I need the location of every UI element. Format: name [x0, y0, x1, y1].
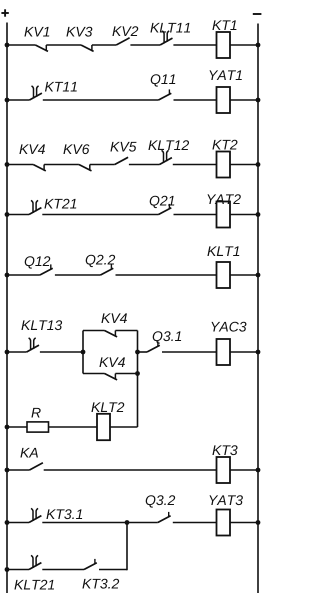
wire	[49, 426, 98, 428]
coil YAT2	[217, 202, 231, 228]
label Q21	[150, 196, 160, 208]
label KV2	[112, 26, 121, 36]
label YAT3	[209, 495, 218, 505]
label Q12	[25, 256, 35, 268]
coil KT3	[217, 457, 231, 483]
coil YAT1	[217, 87, 231, 113]
coil KLT2 (inline)	[97, 414, 110, 440]
wire	[90, 164, 115, 166]
node junction rung9 / OR-branch	[125, 520, 130, 525]
label KLT13	[21, 320, 30, 330]
wire rung3 from + bus	[5, 162, 10, 167]
label KLT11	[150, 23, 159, 33]
label Q11	[151, 74, 161, 86]
contact Q11	[159, 93, 172, 100]
wire to - bus	[230, 522, 258, 524]
contact KA	[30, 463, 43, 470]
wire to - bus	[230, 99, 258, 101]
wire	[173, 522, 217, 524]
label KV3	[66, 27, 75, 37]
wire	[174, 214, 217, 216]
wire left supply bus (+)	[6, 23, 8, 593]
label KLT2	[91, 402, 100, 412]
node junction block right / rung6	[135, 350, 140, 355]
wire	[129, 164, 160, 166]
contact KV4 (bottom of parallel block)	[105, 374, 118, 380]
wire rung5 from + bus	[5, 273, 10, 278]
label KT1	[212, 20, 221, 30]
wire	[115, 373, 137, 375]
wire	[92, 44, 116, 46]
label KT11	[45, 82, 54, 92]
wire block left vertical	[82, 331, 84, 374]
contact Q3.2	[158, 516, 171, 523]
coil KLT1	[217, 262, 231, 288]
wire	[99, 569, 127, 571]
label YAT1	[209, 70, 218, 80]
wire	[173, 44, 216, 46]
wire rung4 from + bus	[5, 212, 10, 217]
wire	[46, 44, 81, 46]
label KLT12	[148, 140, 157, 150]
wire	[44, 164, 79, 166]
contact KT3.2	[84, 563, 97, 570]
wire block bottom branch	[83, 373, 105, 375]
node minus terminal -	[253, 13, 262, 15]
contact Q21	[159, 208, 172, 215]
label Q2.2	[86, 255, 96, 267]
wire to parallel block	[40, 351, 83, 353]
wire	[130, 44, 160, 46]
contact KV3	[81, 45, 94, 51]
wire	[116, 274, 217, 276]
label KV6	[63, 144, 72, 154]
contact KV1	[35, 45, 48, 51]
label KV1	[24, 27, 33, 37]
wire	[115, 330, 137, 332]
wire to - bus	[230, 469, 258, 471]
wire block top branch	[83, 330, 105, 332]
wire	[42, 522, 158, 524]
label KV4	[19, 144, 28, 154]
contact Q12	[40, 268, 53, 275]
label KLT21	[14, 580, 23, 590]
coil YAC3	[217, 339, 231, 365]
contact Q2.2	[101, 268, 114, 275]
contact KV4	[33, 165, 46, 171]
wire	[44, 469, 217, 471]
contact KLT11 (time-delay)	[160, 38, 172, 45]
contact KT11 (time-delay)	[30, 93, 42, 100]
label KLT1	[207, 246, 216, 256]
wire rung9 from + bus	[5, 520, 10, 525]
wire to block right vertical	[110, 426, 138, 428]
contact KLT12 (time-delay)	[160, 158, 172, 165]
wire to - bus	[230, 274, 258, 276]
wire	[173, 164, 217, 166]
label KV4 top	[101, 313, 110, 323]
contact KLT21 (time-delay)	[29, 563, 41, 570]
coil KT2	[217, 152, 231, 178]
label R	[31, 408, 40, 418]
label KT3.2	[82, 579, 91, 589]
wire rung1 from + bus	[5, 43, 10, 48]
label KT3	[212, 445, 221, 455]
contact KLT13 (time-delay)	[27, 345, 39, 352]
contact KV4 (top of parallel block)	[105, 331, 118, 337]
wire OR-branch vertical up to rung9	[126, 522, 128, 571]
label KT2	[212, 140, 221, 150]
label KT3.1	[46, 509, 55, 519]
label KA	[20, 448, 29, 458]
contact KV5	[115, 157, 128, 164]
wire rung2 from + bus	[5, 98, 10, 103]
label KT21	[44, 199, 53, 209]
label KV4 bottom	[99, 357, 108, 367]
wire rung6 to Q3.1	[138, 351, 148, 353]
coil YAT3	[217, 510, 231, 536]
wire to - bus	[230, 351, 258, 353]
contact KT21 (time-delay)	[29, 208, 41, 215]
wire block right vertical down to KLT2 row	[137, 331, 139, 428]
node junction block right / bottom branch	[135, 371, 140, 376]
wire right supply bus (-)	[257, 24, 259, 593]
wire	[55, 274, 101, 276]
label Q3.1	[153, 331, 163, 343]
label YAC3	[211, 322, 220, 332]
label KV5	[110, 142, 119, 152]
wire to - bus	[230, 214, 258, 216]
contact KV6	[79, 165, 92, 171]
resistor R	[27, 422, 49, 432]
wire to - bus	[230, 164, 258, 166]
wire to - bus	[230, 44, 258, 46]
wire	[42, 214, 158, 216]
wire	[43, 99, 159, 101]
wire rung7 from + bus	[5, 425, 10, 430]
label YAT2	[207, 194, 216, 204]
wire	[162, 351, 217, 353]
wire rung6 from + bus	[5, 350, 10, 355]
wire rung8 from + bus	[5, 468, 10, 473]
label Q3.2	[146, 495, 156, 507]
contact KT3.1 (time-delay)	[29, 516, 41, 523]
wire branch from + bus	[5, 567, 10, 572]
wire	[42, 569, 84, 571]
node plus terminal +	[1, 12, 8, 14]
wire	[174, 99, 217, 101]
coil KT1	[217, 32, 231, 58]
contact Q3.1	[147, 345, 160, 352]
contact KV2	[116, 38, 129, 45]
